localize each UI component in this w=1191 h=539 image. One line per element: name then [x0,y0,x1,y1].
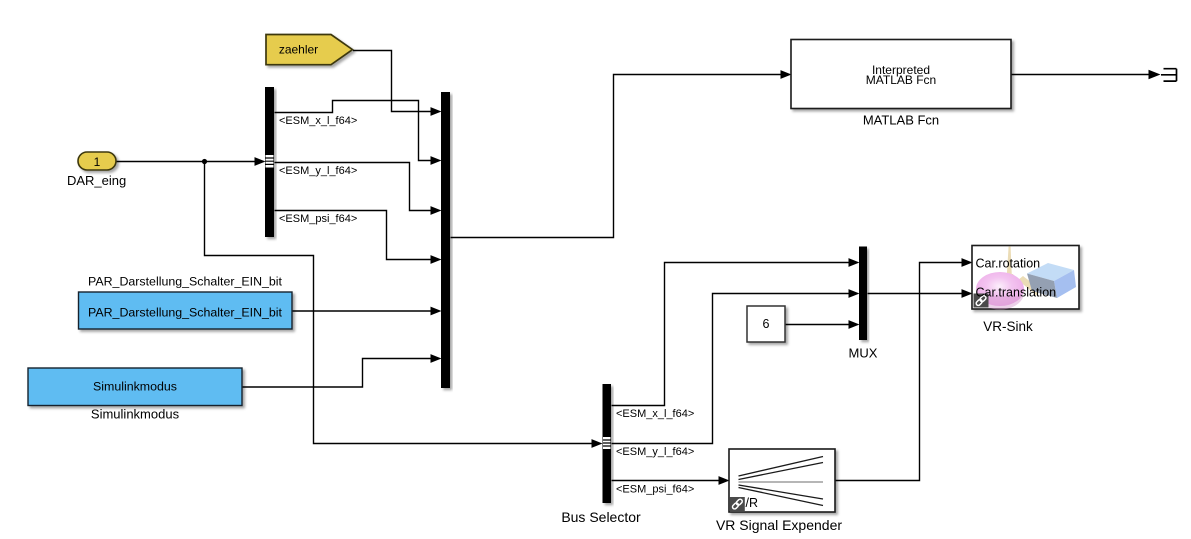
VR Signal Expender fan lines icon [739,457,824,506]
svg-text:Bus Selector: Bus Selector [561,509,641,525]
svg-text:Simulinkmodus: Simulinkmodus [91,407,180,422]
VR Signal Expender /R text [746,496,759,510]
port label ESM_x_l_f64 (Bus Selector 2) [616,408,694,420]
svg-text:/R: /R [746,496,759,510]
port label ESM_y_l_f64 (Bus Selector 1) [279,165,357,177]
label Simulinkmodus [91,407,180,422]
block VR-Sink [972,246,1079,310]
svg-text:Simulinkmodus: Simulinkmodus [93,380,177,394]
wire constant 6 to MUX input 3 [786,320,860,329]
VR-Sink icon pink dome [976,272,1024,310]
wire junction down to Bus Selector 2 input [205,162,603,448]
constant block 6 [747,306,785,342]
label MUX [849,346,878,361]
label Bus Selector [561,509,641,525]
wire ESM_psi_f64 from Bus Selector 1 to big mux input 4 [275,211,442,264]
svg-text:MATLAB Fcn: MATLAB Fcn [866,73,936,87]
port label ESM_psi_f64 (Bus Selector 1) [279,213,357,225]
port label ESM_x_l_f64 (Bus Selector 1) [279,115,357,127]
wire Simulinkmodus block to big mux input 6 [243,354,442,387]
VR-Sink port text Car.rotation [976,257,1041,271]
wire ESM_psi_f64 from Bus Selector 2 to VR Signal Expender input [612,476,730,485]
svg-text:PAR_Darstellung_Schalter_EIN_b: PAR_Darstellung_Schalter_EIN_bit [88,275,283,289]
svg-text:DAR_eing: DAR_eing [67,173,126,188]
label VR-Sink [983,319,1033,334]
wire ESM_x_l_f64 from Bus Selector 1 to big mux input 2 [275,101,442,165]
VR-Sink port text Car.translation [976,286,1057,300]
svg-text:MATLAB Fcn: MATLAB Fcn [863,113,939,128]
label DAR_eing [67,173,126,188]
svg-text:1: 1 [94,155,101,169]
svg-text:<ESM_x_l_f64>: <ESM_x_l_f64> [616,408,694,420]
outport symbol [1161,69,1177,81]
svg-text:PAR_Darstellung_Schalter_EIN_b: PAR_Darstellung_Schalter_EIN_bit [88,306,283,320]
port label ESM_psi_f64 (Bus Selector 2) [616,484,694,496]
MUX bar [859,247,867,341]
svg-text:<ESM_y_l_f64>: <ESM_y_l_f64> [279,165,357,177]
wire ESM_x_l_f64 from Bus Selector 2 to MUX input 1 [612,258,860,405]
svg-text:<ESM_psi_f64>: <ESM_psi_f64> [616,484,694,496]
wire PAR_Darstellung block to big mux input 5 [293,307,442,316]
Bus Selector 1 bar [265,87,274,237]
wire big mux output to MATLAB Fcn input [451,70,792,237]
label VR Signal Expender [716,517,842,533]
svg-text:zaehler: zaehler [279,43,318,57]
wire DAR_eing to Bus Selector 1 input [117,157,266,166]
block VR Signal Expender [729,449,835,512]
wire ESM_y_l_f64 from Bus Selector 1 to big mux input 3 [275,163,442,215]
Bus Selector 2 bar [603,384,612,503]
svg-text:MUX: MUX [849,346,878,361]
goto tag zaehler [266,35,353,65]
svg-text:VR Signal Expender: VR Signal Expender [716,517,842,533]
Bus Selector 1 input icon [266,155,274,168]
wire VR Signal Expender output to VR-Sink input 1 [836,258,973,480]
svg-text:Car.translation: Car.translation [976,286,1057,300]
svg-text:6: 6 [763,317,770,331]
VR-Sink icon blue cube [1027,263,1076,298]
svg-text:<ESM_psi_f64>: <ESM_psi_f64> [279,213,357,225]
svg-text:VR-Sink: VR-Sink [983,319,1033,334]
VR-Sink icon beige spike [1005,247,1041,296]
wire MATLAB Fcn output to outport [1012,70,1161,80]
label PAR_Darstellung_Schalter_EIN_bit [88,275,283,289]
VR-Sink link badge [974,294,989,308]
block Simulinkmodus [28,368,242,406]
svg-text:<ESM_x_l_f64>: <ESM_x_l_f64> [279,115,357,127]
label MATLAB Fcn [863,113,939,128]
VR Signal Expender link badge [730,497,745,511]
block PAR_Darstellung_Schalter_EIN_bit [79,292,293,329]
wire ESM_y_l_f64 from Bus Selector 2 to MUX input 2 [612,289,860,443]
Bus Selector 2 input icon [603,437,611,449]
port label ESM_y_l_f64 (Bus Selector 2) [616,446,694,458]
wire zaehler tag to big mux input 1 [353,51,442,116]
svg-text:Car.rotation: Car.rotation [976,257,1041,271]
block Interpreted MATLAB Fcn [791,40,1011,109]
junction on DAR_eing wire [202,159,207,164]
big mux bar [441,92,450,388]
svg-text:<ESM_y_l_f64>: <ESM_y_l_f64> [616,446,694,458]
wire MUX output to VR-Sink input 2 [868,289,973,298]
inport 1 DAR_eing oval [78,152,116,170]
